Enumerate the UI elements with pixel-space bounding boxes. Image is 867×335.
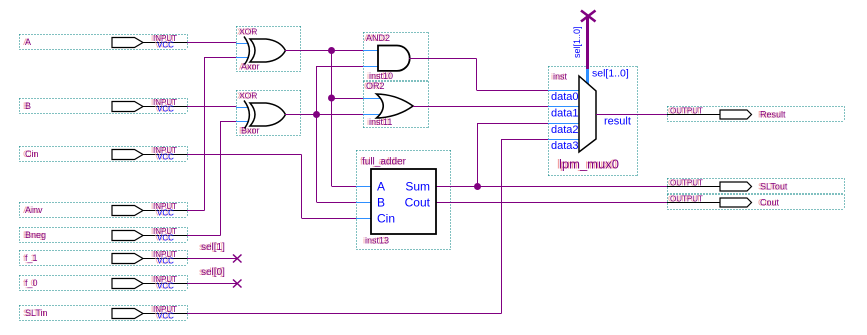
wire mux result to Result pin <box>596 114 667 116</box>
svg-text:SLTout: SLTout <box>760 182 788 192</box>
svg-text:sel[0]: sel[0] <box>201 267 225 278</box>
svg-text:XOR: XOR <box>239 27 257 37</box>
svg-text:Bneg: Bneg <box>25 230 46 240</box>
svg-text:sel[1..0]: sel[1..0] <box>592 68 629 80</box>
wire A to Axor <box>187 42 236 44</box>
junction <box>328 47 335 54</box>
svg-text:data0: data0 <box>551 91 579 103</box>
svg-text:sel[1..0]: sel[1..0] <box>572 26 582 58</box>
input pin B <box>20 98 188 114</box>
svg-text:VCC: VCC <box>157 312 174 321</box>
input pin A <box>20 34 188 50</box>
svg-text:Ainv: Ainv <box>25 205 43 215</box>
output pin Result <box>667 107 845 122</box>
svg-text:OR2: OR2 <box>366 81 385 91</box>
wire SLTin to mux data3 <box>187 139 548 314</box>
svg-text:Cin: Cin <box>25 149 39 159</box>
svg-text:OUTPUT: OUTPUT <box>670 195 703 204</box>
svg-text:f_1: f_1 <box>25 253 38 263</box>
svg-text:VCC: VCC <box>157 209 174 218</box>
svg-text:A: A <box>25 37 31 47</box>
svg-text:inst: inst <box>553 72 568 82</box>
junction <box>328 95 335 102</box>
input pin Cin <box>20 146 188 162</box>
node sel[1] label and open-end X <box>199 242 242 263</box>
svg-text:B: B <box>377 196 385 210</box>
svg-text:data2: data2 <box>551 124 579 136</box>
wire Cout to Cout pin <box>450 202 667 204</box>
input pin Ainv <box>20 202 188 218</box>
wire Ainv to Axor <box>187 57 236 211</box>
wire f_1 (sel[1], open) <box>187 258 238 260</box>
svg-text:inst13: inst13 <box>365 236 389 246</box>
svg-text:Cout: Cout <box>405 196 431 210</box>
wire Bxor out to OR2, full_adder B <box>285 66 363 203</box>
wire Sum to SLTout and mux data2 <box>450 123 667 187</box>
junction <box>313 111 320 118</box>
OR gate inst11 (OR2) <box>363 81 429 128</box>
svg-text:Bxor: Bxor <box>241 126 260 136</box>
wire B to Bxor <box>187 106 236 108</box>
XOR gate Bxor <box>236 91 301 136</box>
svg-text:VCC: VCC <box>157 234 174 243</box>
svg-text:AND2: AND2 <box>366 33 390 43</box>
XOR gate Axor <box>236 27 301 72</box>
svg-text:XOR: XOR <box>239 91 257 101</box>
svg-text:full_adder: full_adder <box>362 157 407 168</box>
junction <box>474 183 481 190</box>
bus sel[1..0] (unconnected, to mux sel) <box>572 11 596 70</box>
wire AND2 out to mux data0 <box>409 59 548 91</box>
svg-text:VCC: VCC <box>157 105 174 114</box>
output pin SLTout <box>667 179 845 194</box>
svg-text:sel[1]: sel[1] <box>201 242 225 253</box>
input pin Bneg <box>20 227 188 243</box>
svg-text:result: result <box>604 116 631 128</box>
full_adder block inst13 <box>356 151 451 250</box>
svg-text:f_0: f_0 <box>25 278 38 288</box>
svg-text:B: B <box>25 101 31 111</box>
svg-text:VCC: VCC <box>157 282 174 291</box>
wire OR2 out to mux data1 <box>413 106 548 108</box>
svg-text:VCC: VCC <box>157 257 174 266</box>
wire Axor out to AND2, OR2, full_adder A <box>285 51 363 187</box>
svg-text:data1: data1 <box>551 108 579 120</box>
svg-text:OUTPUT: OUTPUT <box>670 179 703 188</box>
svg-text:OUTPUT: OUTPUT <box>670 107 703 116</box>
svg-text:inst10: inst10 <box>369 71 393 81</box>
svg-text:Sum: Sum <box>405 180 430 194</box>
svg-text:VCC: VCC <box>157 153 174 162</box>
svg-text:Cin: Cin <box>377 212 395 226</box>
input pin f_1 <box>20 250 188 266</box>
svg-text:A: A <box>377 180 385 194</box>
input pin f_0 <box>20 275 188 291</box>
svg-text:Axor: Axor <box>241 62 260 72</box>
wire f_0 (sel[0], open) <box>187 283 238 285</box>
output pin Cout <box>667 195 845 210</box>
svg-text:VCC: VCC <box>157 41 174 50</box>
node sel[0] label and open-end X <box>199 267 242 288</box>
svg-text:data3: data3 <box>551 140 579 152</box>
input pin SLTin <box>20 305 188 321</box>
svg-text:Cout: Cout <box>760 198 780 208</box>
svg-text:SLTin: SLTin <box>25 308 48 318</box>
mux lpm_mux0 <box>548 67 638 176</box>
AND gate inst10 (AND2) <box>363 33 429 82</box>
svg-text:lpm_mux0: lpm_mux0 <box>559 157 619 172</box>
wire Bneg to Bxor <box>187 121 236 236</box>
wire Cin to full_adder Cin <box>187 155 356 219</box>
svg-text:Result: Result <box>760 110 786 120</box>
